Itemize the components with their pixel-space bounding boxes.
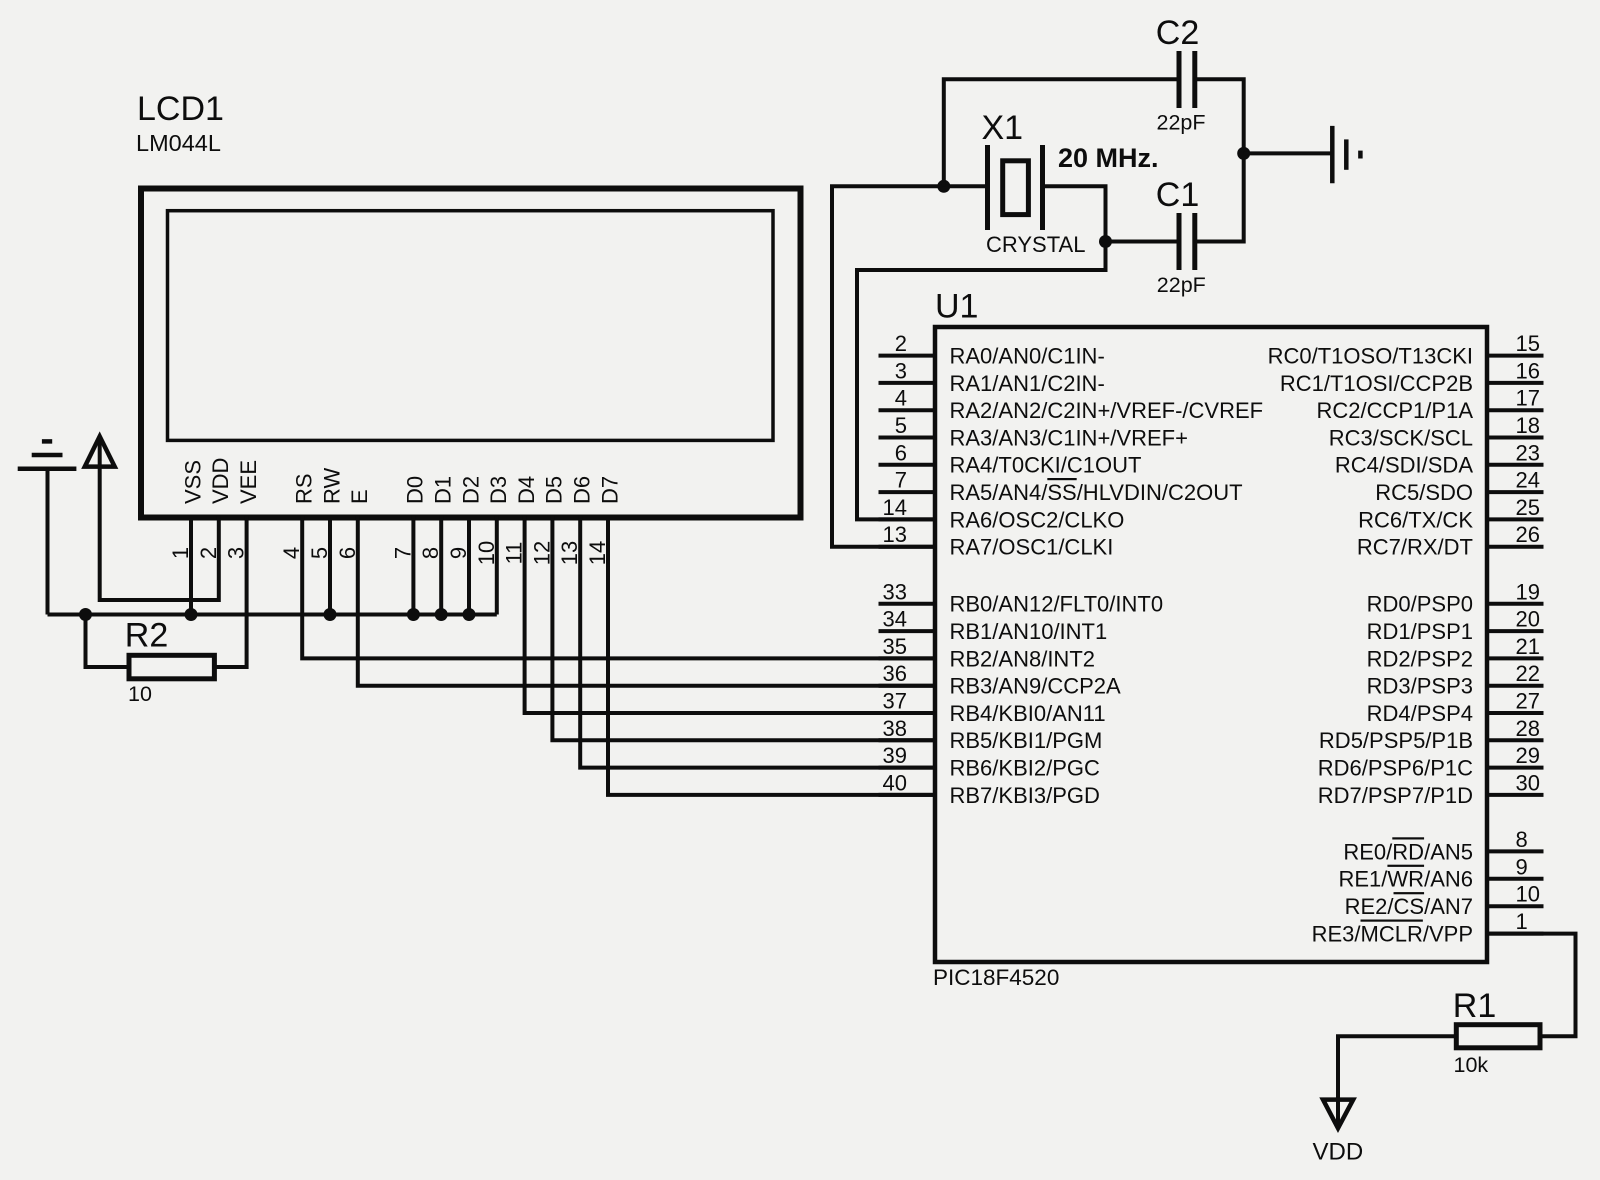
- svg-text:VSS: VSS: [180, 460, 205, 504]
- svg-text:RB5/KBI1/PGM: RB5/KBI1/PGM: [950, 728, 1103, 753]
- svg-text:CRYSTAL: CRYSTAL: [986, 232, 1085, 257]
- svg-text:RW: RW: [319, 468, 344, 504]
- svg-text:RA5/AN4/SS/HLVDIN/C2OUT: RA5/AN4/SS/HLVDIN/C2OUT: [950, 480, 1243, 505]
- junction VSS-ground: [185, 608, 198, 621]
- svg-text:RC7/RX/DT: RC7/RX/DT: [1357, 535, 1473, 560]
- wire LCD D0 pin 7 to ground bus: [411, 516, 415, 615]
- wire LCD D5 pin 12 to U1 RB5 pin 38: [552, 516, 935, 741]
- junction C1/C2/ground: [1237, 147, 1250, 160]
- junction D1-ground: [435, 608, 448, 621]
- svg-text:RD4/PSP4: RD4/PSP4: [1367, 701, 1473, 726]
- U1 right pin numbers: [1516, 331, 1540, 934]
- svg-text:RA0/AN0/C1IN-: RA0/AN0/C1IN-: [950, 344, 1105, 369]
- U1 right pin stubs: [1487, 356, 1544, 934]
- svg-text:10: 10: [128, 682, 152, 706]
- svg-text:RC1/T1OSI/CCP2B: RC1/T1OSI/CCP2B: [1280, 371, 1473, 396]
- svg-text:5: 5: [895, 413, 907, 438]
- svg-text:RD1/PSP1: RD1/PSP1: [1367, 619, 1473, 644]
- wire U1 RA7 pin 13 to crystal node A: [832, 186, 988, 546]
- svg-text:RD3/PSP3: RD3/PSP3: [1367, 674, 1473, 699]
- wire LCD D4 pin 11 to U1 RB4 pin 37: [525, 516, 935, 714]
- svg-text:39: 39: [883, 743, 907, 768]
- svg-text:19: 19: [1516, 579, 1540, 604]
- svg-text:RA4/T0CKI/C1OUT: RA4/T0CKI/C1OUT: [950, 453, 1142, 478]
- ground (right): [1332, 126, 1360, 183]
- svg-text:RC0/T1OSO/T13CKI: RC0/T1OSO/T13CKI: [1268, 344, 1473, 369]
- wire R1 left terminal to VDD arrow: [1338, 1036, 1456, 1127]
- svg-text:40: 40: [883, 770, 907, 795]
- svg-text:RE3/MCLR/VPP: RE3/MCLR/VPP: [1312, 922, 1473, 947]
- junction RW-ground: [324, 608, 337, 621]
- svg-text:LM044L: LM044L: [136, 130, 221, 156]
- svg-text:PIC18F4520: PIC18F4520: [933, 965, 1059, 990]
- svg-text:4: 4: [895, 386, 907, 411]
- svg-text:RC3/SCK/SCL: RC3/SCK/SCL: [1329, 425, 1473, 450]
- svg-text:D2: D2: [458, 476, 483, 504]
- svg-text:RC5/SDO: RC5/SDO: [1375, 480, 1473, 505]
- wire LCD D1 pin 8 to ground bus: [439, 516, 443, 615]
- svg-text:10: 10: [1516, 882, 1540, 907]
- svg-text:RD2/PSP2: RD2/PSP2: [1367, 646, 1473, 671]
- svg-text:14: 14: [883, 495, 907, 520]
- U1 left pin stubs: [879, 356, 936, 795]
- svg-text:26: 26: [1516, 522, 1540, 547]
- svg-text:36: 36: [883, 661, 907, 686]
- svg-text:RB6/KBI2/PGC: RB6/KBI2/PGC: [950, 756, 1101, 781]
- svg-text:38: 38: [883, 716, 907, 741]
- svg-text:R2: R2: [125, 617, 168, 655]
- LCD1 display window: [168, 211, 774, 441]
- svg-text:RS: RS: [292, 473, 317, 504]
- junction D2-ground: [463, 608, 476, 621]
- svg-text:RA2/AN2/C2IN+/VREF-/CVREF: RA2/AN2/C2IN+/VREF-/CVREF: [950, 398, 1264, 423]
- svg-text:RA1/AN1/C2IN-: RA1/AN1/C2IN-: [950, 371, 1105, 396]
- wire crystal right plate to node B: [1043, 186, 1106, 241]
- LCD1 pin name labels VSS VDD VEE RS RW E D0-D7: [180, 458, 622, 504]
- svg-text:27: 27: [1516, 689, 1540, 714]
- junction D0-ground: [407, 608, 420, 621]
- svg-text:30: 30: [1516, 770, 1540, 795]
- svg-text:6: 6: [895, 440, 907, 465]
- svg-text:29: 29: [1516, 743, 1540, 768]
- microcontroller U1 body: [935, 327, 1487, 962]
- svg-text:C1: C1: [1156, 176, 1199, 214]
- svg-text:33: 33: [883, 579, 907, 604]
- svg-text:RB2/AN8/INT2: RB2/AN8/INT2: [950, 646, 1096, 671]
- svg-text:24: 24: [1516, 468, 1540, 493]
- junction R2 branch: [79, 608, 92, 621]
- svg-text:16: 16: [1516, 358, 1540, 383]
- svg-text:9: 9: [1516, 854, 1528, 879]
- svg-text:21: 21: [1516, 634, 1540, 659]
- wire LCD RW pin 5 to ground bus: [328, 516, 332, 615]
- svg-text:1: 1: [1516, 909, 1528, 934]
- svg-text:RB1/AN10/INT1: RB1/AN10/INT1: [950, 619, 1108, 644]
- VDD power arrow (down): [1323, 1100, 1353, 1129]
- svg-text:RD5/PSP5/P1B: RD5/PSP5/P1B: [1319, 728, 1473, 753]
- svg-text:VDD: VDD: [1313, 1139, 1364, 1166]
- LCD1 pin numbers 1-14: [168, 541, 610, 565]
- node B junction (crystal right / C1): [1099, 235, 1112, 248]
- svg-text:2: 2: [895, 331, 907, 356]
- svg-text:E: E: [347, 489, 372, 504]
- wire LCD D2 pin 9 to ground bus: [467, 516, 471, 615]
- svg-text:RE2/CS/AN7: RE2/CS/AN7: [1345, 894, 1473, 919]
- wire LCD VSS pin 1 to ground bus: [189, 516, 193, 615]
- svg-text:18: 18: [1516, 413, 1540, 438]
- svg-text:RB3/AN9/CCP2A: RB3/AN9/CCP2A: [950, 674, 1122, 699]
- ground (left): [18, 441, 77, 468]
- wire node B to U1 RA6 pin 14: [857, 242, 1106, 520]
- wire bus to R2 left terminal: [86, 615, 130, 668]
- svg-text:RA6/OSC2/CLKO: RA6/OSC2/CLKO: [950, 507, 1125, 532]
- wire LCD D3 pin 10 to ground bus: [495, 516, 499, 615]
- svg-text:RE0/RD/AN5: RE0/RD/AN5: [1343, 839, 1473, 864]
- wire LCD VEE pin 3 to R2: [215, 516, 247, 668]
- capacitor C1: [1179, 213, 1195, 270]
- svg-text:RA3/AN3/C1IN+/VREF+: RA3/AN3/C1IN+/VREF+: [950, 425, 1188, 450]
- wire C1 right plate to ground node: [1195, 153, 1244, 241]
- capacitor C2: [1179, 51, 1195, 108]
- svg-text:RC2/CCP1/P1A: RC2/CCP1/P1A: [1316, 398, 1473, 423]
- svg-text:D6: D6: [570, 476, 595, 504]
- svg-text:23: 23: [1516, 440, 1540, 465]
- wire power arrow to LCD VDD pin 2: [100, 438, 219, 600]
- svg-text:35: 35: [883, 634, 907, 659]
- wire LCD E pin 6 to U1 RB3 pin 36: [358, 516, 935, 686]
- svg-text:7: 7: [895, 468, 907, 493]
- svg-text:D0: D0: [403, 476, 428, 504]
- svg-text:10k: 10k: [1454, 1053, 1489, 1077]
- svg-text:22pF: 22pF: [1157, 111, 1206, 135]
- LCD module LCD1 body: [141, 189, 801, 518]
- wire LCD D7 pin 14 to U1 RB7 pin 40: [608, 516, 935, 795]
- wire node A up to C2 left plate: [944, 79, 1179, 186]
- svg-text:D4: D4: [514, 476, 539, 504]
- svg-text:22: 22: [1516, 661, 1540, 686]
- svg-text:RD6/PSP6/P1C: RD6/PSP6/P1C: [1318, 756, 1473, 781]
- power arrow (VDD) left: [85, 436, 115, 466]
- svg-text:RD0/PSP0: RD0/PSP0: [1367, 592, 1473, 617]
- svg-text:25: 25: [1516, 495, 1540, 520]
- wire junction to ground (right): [1244, 151, 1333, 155]
- svg-text:28: 28: [1516, 716, 1540, 741]
- crystal X1: [988, 145, 1043, 230]
- svg-text:U1: U1: [935, 288, 978, 326]
- svg-text:37: 37: [883, 689, 907, 714]
- svg-text:8: 8: [1516, 827, 1528, 852]
- svg-text:VDD: VDD: [208, 458, 233, 504]
- resistor R2: [129, 655, 214, 679]
- svg-text:LCD1: LCD1: [137, 90, 224, 128]
- wire C2 right plate to ground node: [1195, 79, 1244, 153]
- svg-text:RB7/KBI3/PGD: RB7/KBI3/PGD: [950, 783, 1100, 808]
- svg-text:34: 34: [883, 607, 907, 632]
- svg-text:RC6/TX/CK: RC6/TX/CK: [1358, 507, 1473, 532]
- svg-text:RB0/AN12/FLT0/INT0: RB0/AN12/FLT0/INT0: [950, 592, 1164, 617]
- svg-text:D1: D1: [431, 476, 456, 504]
- svg-text:RE1/WR/AN6: RE1/WR/AN6: [1339, 867, 1474, 892]
- wire node B to C1 left plate: [1106, 240, 1180, 244]
- svg-text:D5: D5: [542, 476, 567, 504]
- svg-text:22pF: 22pF: [1157, 273, 1206, 297]
- node A junction (crystal left / C2): [937, 180, 950, 193]
- svg-text:3: 3: [895, 358, 907, 383]
- svg-text:RD7/PSP7/P1D: RD7/PSP7/P1D: [1318, 783, 1473, 808]
- svg-text:C2: C2: [1156, 14, 1199, 52]
- svg-text:D3: D3: [486, 476, 511, 504]
- svg-text:D7: D7: [597, 476, 622, 504]
- ground bus wire: [48, 613, 497, 617]
- svg-text:17: 17: [1516, 386, 1540, 411]
- svg-text:R1: R1: [1453, 987, 1496, 1025]
- svg-text:15: 15: [1516, 331, 1540, 356]
- svg-text:RA7/OSC1/CLKI: RA7/OSC1/CLKI: [950, 535, 1114, 560]
- wire ground stem to bus: [46, 469, 50, 615]
- svg-text:RB4/KBI0/AN11: RB4/KBI0/AN11: [950, 701, 1106, 726]
- wire LCD D6 pin 13 to U1 RB6 pin 39: [580, 516, 935, 768]
- svg-text:20: 20: [1516, 607, 1540, 632]
- svg-text:VEE: VEE: [236, 460, 261, 504]
- wire LCD RS pin 4 to U1 RB2 pin 35: [302, 516, 935, 659]
- U1 left pin labels (port A and B): [950, 344, 1264, 808]
- wire U1 RE3/MCLR pin 1 to R1 right terminal: [1487, 934, 1576, 1037]
- U1 left pin numbers: [883, 331, 907, 795]
- svg-text:X1: X1: [982, 109, 1024, 147]
- svg-text:RC4/SDI/SDA: RC4/SDI/SDA: [1335, 453, 1473, 478]
- svg-text:13: 13: [883, 522, 907, 547]
- svg-text:20 MHz.: 20 MHz.: [1058, 143, 1159, 173]
- U1 right pin labels (port C, D, E): [1268, 344, 1474, 947]
- resistor R1: [1456, 1025, 1540, 1048]
